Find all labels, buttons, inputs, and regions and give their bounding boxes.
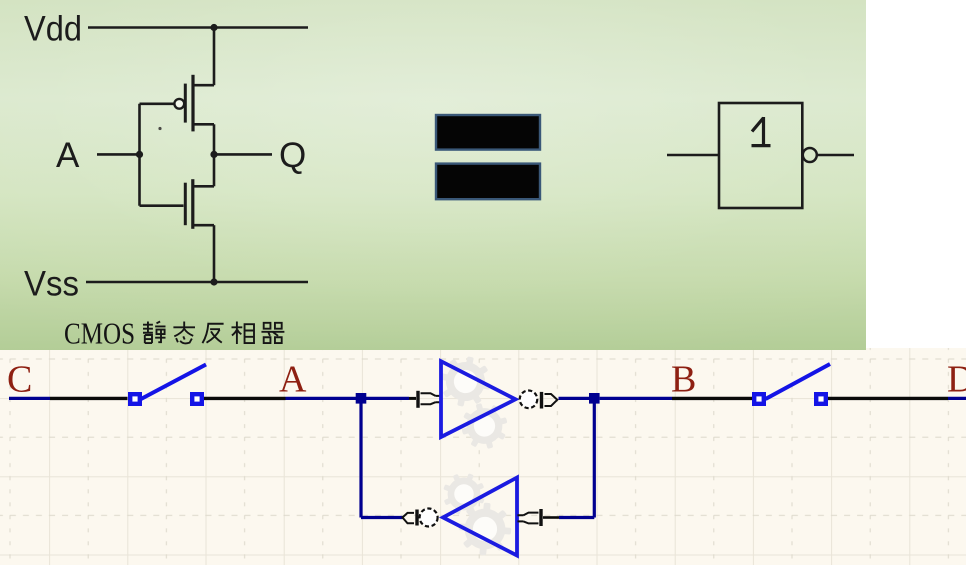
wire G1 out navy [559,397,590,400]
svg-text:D: D [947,359,966,401]
svg-text:A: A [56,136,80,175]
caption CJK glyph jing [143,322,166,344]
wire feedback bottom [361,516,403,519]
PMOS gate inversion bubble [174,99,184,109]
transistor Q2 NMOS source stub [193,224,214,227]
equals top bar [436,115,540,150]
equals bottom bar [436,164,540,200]
wire Vdd to PMOS source [213,28,216,86]
Vdd rail wire [88,26,308,29]
wire G2 in navy [559,516,594,519]
svg-text:Q: Q [279,136,306,175]
white margin top-right [866,0,966,348]
svg-text:CMOS: CMOS [64,316,135,351]
caption CJK glyph qi [261,323,284,343]
switch S2 right terminal [816,394,826,404]
wire input bus vertical [138,104,141,206]
wire B navy [600,397,672,400]
inverter G2 output bubble [420,509,438,527]
svg-text:Vdd: Vdd [24,10,82,49]
wire C black [50,397,128,400]
caption CJK glyph tai [173,322,195,344]
wire gate of PMOS [140,103,174,106]
node A junction [356,393,367,404]
wire S2 to D black [828,397,948,400]
transistor Q1 PMOS channel bar [191,75,194,132]
node Vss junction [210,278,217,285]
inverter G1 output bubble [520,391,538,409]
switch S1 right terminal [192,394,202,404]
gate U1 input wire [667,154,719,157]
switch S2 lever [766,364,831,399]
switch S2 left terminal [754,394,764,404]
inverter G1 input pin [418,391,442,408]
transistor Q2 NMOS drain stub [193,185,214,188]
wire D navy [948,397,966,400]
svg-text:C: C [7,359,32,401]
gate U1 label 1 [752,117,771,146]
wire gate of NMOS [140,204,184,207]
node A junction [136,151,143,158]
gate U1 body [719,103,802,208]
caption CJK glyph xiang [232,322,255,345]
switch S1 lever [141,365,206,400]
transistor Q1 PMOS gate bar [184,84,187,123]
inverter G1 output pin [542,392,558,409]
inverter G2 output pin [403,510,418,526]
transistor Q2 NMOS gate bar [184,183,187,226]
node Q junction [210,151,217,158]
wire G2 in black [543,516,559,519]
gate U1 output bubble [803,148,817,162]
caption CJK glyph fan [202,324,223,343]
svg-text:A: A [279,359,307,401]
inverter G1 body [441,361,516,437]
node Vdd junction [210,24,217,31]
transistor Q1 PMOS drain stub [193,123,214,126]
slide background [0,0,866,350]
wire A vertical [359,398,362,517]
wire B black [672,397,752,400]
wire input A [97,153,140,156]
wire PMOS drain to output node [213,124,216,186]
wire NMOS source to Vss [213,225,216,282]
switch S1 left terminal [130,394,140,404]
wire S1 to A black [204,397,286,400]
wire B vertical [593,398,596,517]
transistor Q2 NMOS channel bar [191,179,194,229]
Vss rail wire [86,281,308,284]
wire output Q [214,153,272,156]
stray dot [158,127,161,130]
svg-text:B: B [671,359,696,401]
node B junction [589,393,600,404]
wire C navy [9,397,50,400]
schematic editor background [0,347,966,565]
gate U1 output wire [817,154,855,157]
transistor Q1 PMOS source stub [193,84,214,87]
wire A navy [286,397,410,400]
inverter G2 input pin [518,509,542,526]
svg-text:Vss: Vss [24,265,79,304]
wire pin stub black [409,397,416,400]
inverter G2 body [443,478,517,556]
gears watermark [436,352,496,412]
